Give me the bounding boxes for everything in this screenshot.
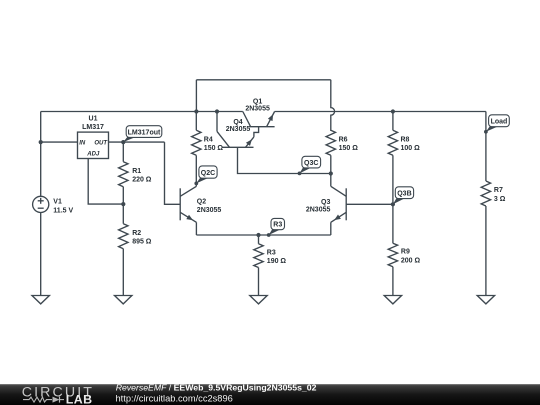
- svg-text:ADJ: ADJ: [86, 152, 100, 158]
- node junction emitters/R3: [256, 233, 260, 237]
- transistor Q2 2N3055: [180, 186, 221, 235]
- node junction V1/IN: [39, 140, 43, 144]
- resistor R7 3: [481, 181, 506, 296]
- svg-text:R8: R8: [401, 137, 410, 144]
- wire top box right with hop: [331, 80, 335, 131]
- op-amp U1 LM317 regulator: [78, 116, 109, 159]
- wire input rail: [41, 111, 243, 113]
- node junction rail/R8: [391, 109, 395, 113]
- wire V1 to U1 IN: [41, 141, 78, 143]
- resistor R4 150: [192, 112, 224, 187]
- svg-text:U1: U1: [89, 116, 98, 123]
- transistor Q3 2N3055: [306, 174, 393, 236]
- svg-text:220 Ω: 220 Ω: [132, 177, 152, 184]
- svg-text:http://circuitlab.com/cc2s896: http://circuitlab.com/cc2s896: [116, 393, 233, 403]
- ground below R7: [477, 296, 494, 304]
- node flag R3: [267, 218, 285, 237]
- svg-text:Q1: Q1: [253, 98, 262, 105]
- svg-text:R9: R9: [401, 249, 410, 256]
- wire Q4 base to Q3 collector: [238, 147, 331, 173]
- svg-text:V1: V1: [53, 198, 62, 205]
- svg-text:150 Ω: 150 Ω: [339, 145, 359, 152]
- svg-text:ReverseEMF / EEWeb_9.5VRegUsin: ReverseEMF / EEWeb_9.5VRegUsing2N3055s_0…: [116, 382, 317, 392]
- svg-text:11.5 V: 11.5 V: [53, 207, 73, 214]
- svg-text:Q2C: Q2C: [201, 170, 215, 177]
- wire Q2 emitter to Q3 emitter: [196, 234, 330, 236]
- node junction R8/R9/Q3 base: [391, 202, 395, 206]
- svg-text:Q3C: Q3C: [304, 160, 318, 167]
- svg-text:Q2: Q2: [197, 199, 206, 206]
- node flag Q2C: [194, 166, 217, 185]
- wire U1 ADJ: [88, 159, 123, 205]
- svg-text:895 Ω: 895 Ω: [132, 239, 152, 246]
- wire top box top: [196, 79, 330, 81]
- footer url text: [116, 393, 233, 403]
- ground below V1: [32, 296, 49, 304]
- wire rail to R7: [485, 112, 487, 182]
- CircuitLab logo: [22, 385, 94, 405]
- wire output rail: [275, 111, 486, 113]
- wire V1 bottom: [40, 213, 42, 296]
- svg-text:LAB: LAB: [66, 393, 93, 405]
- wire V1 top to input rail: [40, 112, 42, 197]
- svg-text:100 Ω: 100 Ω: [401, 145, 421, 152]
- transistor Q4 2N3055: [217, 112, 259, 148]
- svg-text:2N3055: 2N3055: [245, 106, 270, 113]
- svg-text:Q3: Q3: [321, 199, 330, 206]
- svg-text:R2: R2: [132, 230, 141, 237]
- svg-text:R3: R3: [267, 249, 276, 256]
- wire OUT to Q2 base: [165, 142, 181, 204]
- svg-text:R7: R7: [494, 187, 503, 194]
- resistor R1 220: [119, 142, 152, 204]
- svg-text:R6: R6: [339, 137, 348, 144]
- node flag Q3C: [298, 156, 321, 175]
- svg-text:OUT: OUT: [94, 140, 108, 146]
- node flag Q3B: [391, 187, 414, 206]
- wire top box left: [195, 80, 197, 112]
- footer bar: [0, 384, 540, 405]
- node junction OUT/R1: [121, 140, 125, 144]
- svg-text:LM317out: LM317out: [128, 129, 161, 136]
- node junction R6/Q3C: [329, 171, 333, 175]
- svg-text:LM317: LM317: [82, 124, 104, 131]
- resistor R8 100: [388, 112, 420, 205]
- svg-text:150 Ω: 150 Ω: [204, 145, 224, 152]
- resistor R6 150: [326, 130, 358, 173]
- voltage source V1 11.5 V: [33, 196, 74, 214]
- node junction rail/R4/box: [194, 109, 198, 113]
- transistor Q1 2N3055: [243, 98, 275, 126]
- wire U1 OUT: [109, 141, 165, 143]
- svg-text:R4: R4: [204, 137, 213, 144]
- svg-text:2N3055: 2N3055: [226, 126, 251, 133]
- svg-text:2N3055: 2N3055: [197, 207, 222, 214]
- node flag LM317out: [121, 126, 161, 144]
- svg-text:IN: IN: [79, 140, 86, 146]
- svg-text:2N3055: 2N3055: [306, 207, 331, 214]
- node junction rail/Q4 collector: [215, 109, 219, 113]
- svg-text:R1: R1: [132, 168, 141, 175]
- node flag Load: [484, 115, 509, 134]
- resistor R2 895: [119, 204, 152, 295]
- footer title text: [116, 382, 317, 392]
- svg-text:Load: Load: [491, 119, 508, 126]
- node junction ADJ/R1/R2: [121, 202, 125, 206]
- svg-text:3 Ω: 3 Ω: [494, 196, 506, 203]
- svg-text:200 Ω: 200 Ω: [401, 257, 421, 264]
- svg-text:190 Ω: 190 Ω: [267, 258, 287, 265]
- svg-text:R3: R3: [273, 222, 282, 229]
- resistor R3 190: [254, 235, 287, 296]
- ground below R2: [115, 296, 132, 304]
- svg-text:Q3B: Q3B: [397, 191, 411, 198]
- resistor R9 200: [388, 204, 420, 295]
- ground below R3: [250, 296, 267, 304]
- ground below R9: [384, 296, 401, 304]
